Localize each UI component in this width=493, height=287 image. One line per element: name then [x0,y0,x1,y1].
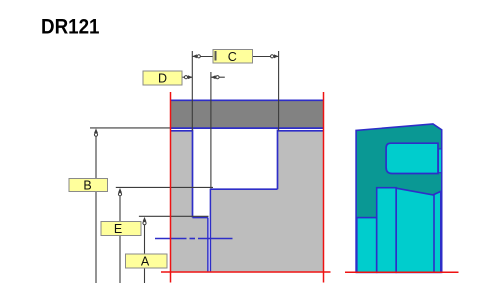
svg-text:E: E [114,222,122,236]
svg-text:C: C [228,50,237,64]
svg-text:A: A [141,255,150,269]
svg-text:DR121: DR121 [41,15,100,39]
svg-text:D: D [158,71,167,85]
svg-text:B: B [83,179,91,193]
